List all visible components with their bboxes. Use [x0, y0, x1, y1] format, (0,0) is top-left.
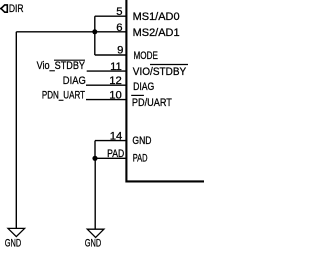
svg-text:DIAG: DIAG — [63, 75, 86, 87]
svg-text:PD/UART: PD/UART — [132, 97, 172, 109]
wire pin 6 row to left rail — [16, 31, 126, 33]
wire pin 14 GND — [95, 140, 126, 142]
svg-text:VIO/STDBY: VIO/STDBY — [133, 66, 187, 78]
svg-text:DIAG: DIAG — [133, 81, 154, 93]
wire vertical tie pins 5-6-9 — [94, 16, 96, 55]
svg-text:PAD: PAD — [133, 153, 148, 165]
overline of STDBY in net label — [54, 59, 85, 61]
svg-text:GND: GND — [132, 135, 151, 147]
svg-text:10: 10 — [109, 89, 122, 101]
svg-text:MODE: MODE — [134, 50, 159, 62]
wire vertical tie pin14-PAD — [94, 141, 96, 159]
wire left rail down to ground — [15, 32, 17, 229]
svg-text:5: 5 — [116, 6, 122, 18]
overline of STDBY in pin name — [150, 64, 188, 66]
svg-text:GND: GND — [5, 237, 22, 249]
ground symbol left — [8, 228, 25, 236]
wire pin 10 PD/UART — [86, 99, 126, 101]
svg-text:PDN_UART: PDN_UART — [42, 89, 85, 101]
wire pin 9 — [95, 54, 127, 56]
svg-text:GND: GND — [85, 237, 102, 249]
svg-text:11: 11 — [110, 61, 122, 73]
junction dot node GND/PAD — [92, 156, 97, 161]
svg-text:6: 6 — [116, 22, 122, 34]
svg-text:MS2/AD1: MS2/AD1 — [133, 27, 180, 39]
wire PAD pin — [95, 157, 126, 159]
svg-text:DIR: DIR — [9, 3, 24, 15]
overline of PD in pin name — [131, 94, 144, 96]
wire pin 11 VIO/STDBY — [87, 70, 127, 72]
junction dot node MS1/MS2/MODE — [92, 29, 97, 34]
IC U1 body (left edge and bottom edge, partially cropped) — [126, 0, 205, 181]
wire pin 12 DIAG — [86, 84, 126, 86]
wire down to right ground — [94, 158, 96, 229]
svg-text:9: 9 — [117, 44, 123, 56]
svg-text:12: 12 — [109, 75, 122, 87]
wire pin 5 — [95, 15, 127, 17]
ground symbol right — [87, 229, 104, 237]
svg-text:Vio_STDBY: Vio_STDBY — [37, 60, 86, 72]
svg-text:14: 14 — [110, 131, 123, 143]
svg-text:PAD: PAD — [107, 148, 124, 160]
hierarchical port DIR (symbol) — [0, 5, 7, 12]
svg-text:MS1/AD0: MS1/AD0 — [133, 11, 180, 23]
